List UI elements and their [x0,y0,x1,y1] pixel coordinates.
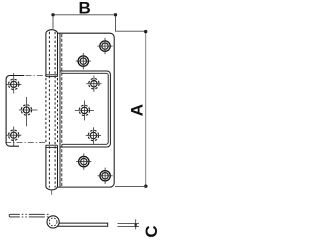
B dimension line [53,14,116,16]
crank bend line outer [59,34,61,187]
barrel right edge top segment [57,33,59,76]
A dimension line [145,32,147,187]
svg-text:A: A [127,104,146,116]
B extension line left [52,16,54,29]
hole L3 (dashed) [6,127,21,147]
C extension line bottom [118,226,140,228]
side view: right leaf bar [57,223,107,226]
C arrowhead down [134,225,137,227]
barrel left edge top segment [45,33,47,76]
barrel right edge bottom segment [57,145,59,186]
knuckle joint top [46,74,58,76]
left plate outline (open right side) [6,76,24,147]
C extension line top [118,223,140,225]
crank bend line inner [61,34,63,187]
inner plate inner outline [62,73,108,144]
pin hidden line right [54,32,56,188]
side view: pin hole (dashed) [49,218,57,226]
barrel right edge middle segment (dashed) [57,78,59,144]
hole H7 [98,168,113,184]
side view: knuckle circle [47,216,59,228]
top alignment dash-dot [26,75,46,77]
inner plate outer outline [60,71,110,147]
hole H2 [76,53,91,69]
C arrowhead up [134,223,137,225]
hole H1 [97,38,112,54]
pin centre mark below barrel [51,191,53,195]
barrel left edge bottom segment [45,145,47,186]
barrel top dome [46,30,58,34]
hole H3 (dashed) [86,76,101,92]
barrel left edge middle segment (dashed) [45,78,47,144]
A bottom extension [115,185,146,187]
barrel bottom dome [46,186,58,190]
hole H5 (dashed) [86,127,101,143]
pin hidden line left [48,32,50,188]
side view: left leaf bar [8,214,11,217]
hole H6 [76,153,91,169]
bottom alignment dash-dot [5,141,46,143]
hole L2 (dashed) [19,97,38,126]
hole L1 (dashed) [6,73,21,94]
right plate outline [58,33,115,187]
C arrow line [135,219,137,229]
hole H4 (dashed) [75,100,94,120]
knuckle joint bottom [46,144,58,146]
B extension line right / A extension top [116,16,146,31]
svg-text:C: C [142,225,159,237]
